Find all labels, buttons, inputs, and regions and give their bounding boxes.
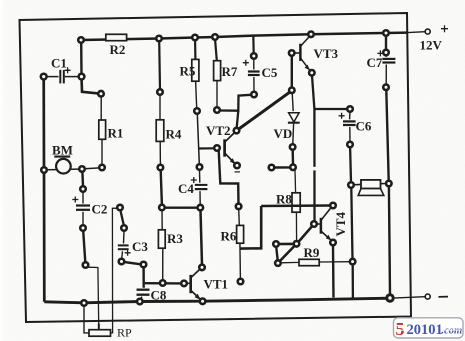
svg-text:5: 5 [396,319,405,339]
svg-text:20101: 20101 [407,322,443,338]
